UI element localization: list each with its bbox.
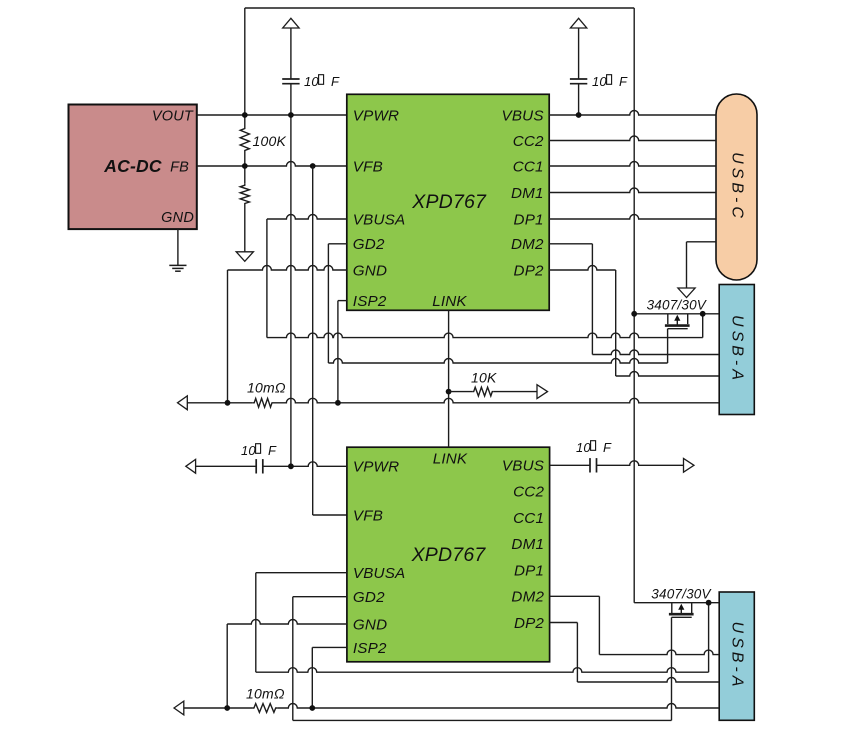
node VOUT-divider <box>242 112 248 118</box>
wire USB-C shield to arrow <box>687 241 717 243</box>
svg-text:3407/30V: 3407/30V <box>651 587 712 602</box>
svg-text:ISP2: ISP2 <box>353 640 387 657</box>
svg-text:FB: FB <box>170 159 189 175</box>
svg-text:CC2: CC2 <box>513 133 544 150</box>
wire VBUSA sense net <box>267 215 347 220</box>
wire DM2 to USB-A D- <box>549 243 592 245</box>
wire VOUT to VPWR <box>197 114 347 116</box>
arrow left shunt1 return <box>178 396 188 410</box>
svg-text:CC1: CC1 <box>513 158 544 175</box>
svg-text:USB-C: USB-C <box>728 152 745 222</box>
wire divider column <box>244 8 246 127</box>
svg-text:10K: 10K <box>471 370 497 386</box>
wire DM1 to USB-C <box>549 188 716 193</box>
resistor R5 10m ohm <box>184 707 253 709</box>
svg-text:DM1: DM1 <box>511 185 544 202</box>
svg-text:CC1: CC1 <box>513 510 544 527</box>
svg-text:10: 10 <box>304 74 319 89</box>
node VBUS-C2 <box>576 112 582 118</box>
node GND2-shunt <box>224 705 230 711</box>
wire GND2 to shunt2 <box>227 620 347 625</box>
resistor R1 100K <box>240 127 249 152</box>
transistor Q1 3407/30V <box>634 313 719 315</box>
wire GND to shunt <box>228 266 347 271</box>
svg-text:F: F <box>331 74 340 89</box>
capacitor C3 10uF <box>196 465 257 467</box>
connector J2 USB-A <box>719 285 754 415</box>
svg-text:VOUT: VOUT <box>152 109 194 125</box>
svg-text:ISP2: ISP2 <box>353 293 387 310</box>
svg-text:GD2: GD2 <box>353 589 385 606</box>
node GND1-shunt <box>225 400 231 406</box>
svg-text:VPWR: VPWR <box>353 107 399 124</box>
svg-text:F: F <box>603 440 612 455</box>
node ISP2-2 shunt <box>309 705 315 711</box>
wire ISP2 sense <box>338 300 347 302</box>
wire C3 to VPWR2 <box>263 462 347 467</box>
wire CC2 to USB-C <box>549 136 716 141</box>
resistor R4 10m ohm <box>187 402 252 404</box>
connector J1 USB-C <box>716 94 757 280</box>
svg-text:DM1: DM1 <box>511 536 544 553</box>
transistor Q2 3407/30V <box>634 602 719 604</box>
svg-text:XPD767: XPD767 <box>411 544 487 566</box>
wire DP2 to USB-A D+ <box>549 266 616 271</box>
wire DM2-2 to USB-A2 D- <box>550 595 600 597</box>
IC U1 XPD767 <box>347 94 549 310</box>
arrow left C3 input <box>186 459 196 473</box>
wire shunt1 to USB-A GND <box>274 398 720 403</box>
node ISP2-shunt <box>335 400 341 406</box>
node FB-divider <box>242 163 248 169</box>
svg-text:CC2: CC2 <box>513 484 544 501</box>
wire GD2 gate net <box>328 243 346 245</box>
IC U2 XPD767 <box>347 447 550 662</box>
node FB-VFB2 rail <box>310 163 316 169</box>
node VOUT-C1 rail <box>288 112 294 118</box>
svg-text:10: 10 <box>576 440 591 455</box>
svg-text:DM2: DM2 <box>511 236 544 253</box>
svg-text:DP1: DP1 <box>514 211 544 228</box>
node Q1 drain <box>700 311 706 317</box>
svg-text:XPD767: XPD767 <box>411 191 487 213</box>
wire VBUSA2 sense net <box>256 572 347 574</box>
svg-text:3407/30V: 3407/30V <box>647 298 708 313</box>
arrow down divider return <box>236 252 253 261</box>
svg-text:GD2: GD2 <box>353 236 385 253</box>
svg-text:DP2: DP2 <box>514 615 544 632</box>
capacitor C4 10uF <box>550 464 590 466</box>
svg-text:VPWR: VPWR <box>353 459 399 476</box>
svg-text:USB-A: USB-A <box>728 315 745 384</box>
svg-text:GND: GND <box>161 210 194 226</box>
wire ISP2-2 sense <box>312 646 347 648</box>
arrow down USB-C shield <box>678 288 695 298</box>
wire LINK1-LINK2 <box>448 310 450 447</box>
arrow left shunt2 return <box>174 701 184 715</box>
ground <box>169 264 186 266</box>
svg-text:VFB: VFB <box>353 158 383 175</box>
svg-text:VFB: VFB <box>353 507 383 524</box>
svg-text:GND: GND <box>353 262 387 279</box>
svg-text:10mΩ: 10mΩ <box>246 686 285 702</box>
svg-text:VBUSA: VBUSA <box>353 565 406 582</box>
wire CC1 to USB-C <box>549 162 716 167</box>
svg-text:AC-DC: AC-DC <box>103 156 162 176</box>
wire VBUS to USB-C <box>549 111 716 116</box>
wire AC-DC GND stub <box>177 229 179 265</box>
svg-text:F: F <box>268 443 277 458</box>
svg-text:DP2: DP2 <box>514 262 544 279</box>
svg-text:F: F <box>619 74 628 89</box>
wire DP1 to USB-C <box>549 215 716 220</box>
arrow right LINK pullup <box>537 385 548 399</box>
arrow up C1 rail <box>283 18 299 28</box>
resistor R2 (lower divider) <box>240 184 249 205</box>
capacitor C2 10uF <box>578 28 580 79</box>
capacitor C1 10uF <box>290 28 292 79</box>
svg-text:10: 10 <box>241 443 256 458</box>
wire GD2-2 gate net <box>293 596 347 598</box>
node Q1 source rail <box>631 311 637 317</box>
node LINK-10K <box>446 389 452 395</box>
wire DP2-2 to USB-A2 D+ <box>550 622 578 624</box>
power supply AC-DC <box>69 105 197 230</box>
node VPWR2 rail <box>288 463 294 469</box>
wire C1 rail down to VPWR2 feed <box>290 84 292 467</box>
node Q2 drain <box>706 600 712 606</box>
svg-text:VBUS: VBUS <box>502 458 544 475</box>
wire FB to VFB <box>197 162 347 167</box>
arrow right VBUS2 <box>684 458 695 472</box>
svg-text:GND: GND <box>353 616 387 633</box>
wire VOUT top feed to main rail <box>245 7 634 9</box>
svg-text:DM2: DM2 <box>511 589 544 606</box>
svg-text:100K: 100K <box>253 133 287 149</box>
connector J3 USB-A <box>719 592 754 720</box>
wire C4 to arrow <box>597 461 684 465</box>
resistor R3 10K <box>449 391 473 393</box>
svg-text:VBUSA: VBUSA <box>353 211 406 228</box>
svg-text:USB-A: USB-A <box>728 622 745 691</box>
svg-text:DP1: DP1 <box>514 562 544 579</box>
svg-text:10: 10 <box>592 74 607 89</box>
svg-text:LINK: LINK <box>433 451 468 468</box>
svg-text:LINK: LINK <box>432 293 467 310</box>
wire shunt2 to USB-A2 GND <box>277 704 719 709</box>
svg-text:VBUS: VBUS <box>502 107 544 124</box>
arrow up C2 stub <box>570 18 586 28</box>
svg-text:10mΩ: 10mΩ <box>247 380 286 396</box>
wire VFB2 rail <box>312 166 314 515</box>
